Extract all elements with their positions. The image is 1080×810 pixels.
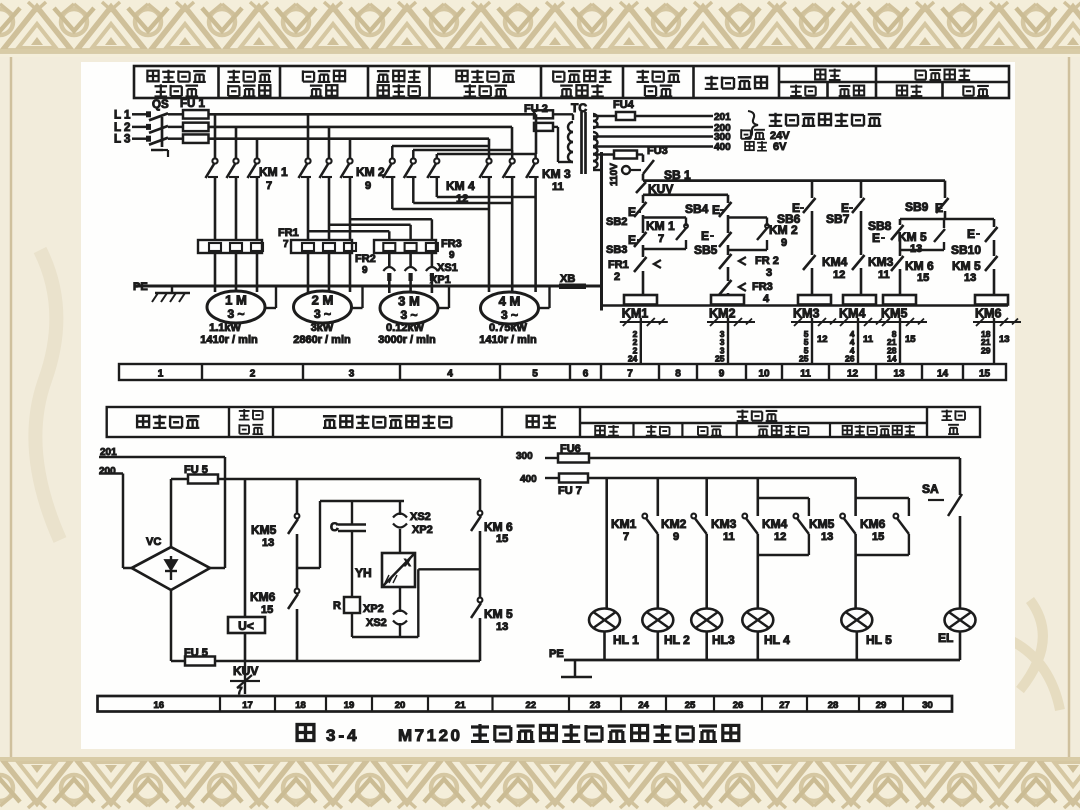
svg-text:KM 5: KM 5 — [898, 230, 927, 244]
svg-text:3 ~: 3 ~ — [400, 308, 417, 322]
svg-text:11: 11 — [863, 334, 874, 345]
svg-text:15: 15 — [917, 272, 929, 284]
svg-text:KM 1: KM 1 — [646, 219, 675, 233]
svg-text:KM5: KM5 — [809, 517, 835, 531]
svg-text:9: 9 — [365, 180, 371, 192]
svg-text:13: 13 — [893, 369, 905, 380]
svg-text:25: 25 — [685, 700, 696, 711]
svg-text:14: 14 — [887, 354, 897, 364]
svg-text:KM4: KM4 — [822, 255, 848, 269]
svg-text:1410r / min: 1410r / min — [200, 334, 258, 346]
svg-text:KM5: KM5 — [881, 307, 907, 321]
svg-text:3 M: 3 M — [398, 294, 420, 309]
svg-text:FU 7: FU 7 — [558, 485, 582, 497]
svg-text:26: 26 — [733, 700, 744, 711]
svg-text:EL: EL — [938, 631, 953, 645]
svg-text:7: 7 — [623, 531, 629, 543]
svg-text:KM1: KM1 — [622, 307, 648, 321]
svg-text:SB4: SB4 — [685, 202, 709, 216]
svg-text:3-4: 3-4 — [326, 726, 360, 745]
svg-text:2: 2 — [614, 271, 620, 283]
svg-text:L 3: L 3 — [114, 134, 130, 146]
svg-text:X: X — [404, 558, 411, 569]
svg-text:110V: 110V — [609, 163, 620, 186]
svg-text:25: 25 — [799, 354, 809, 364]
svg-text:KUV: KUV — [233, 664, 258, 678]
svg-text:12: 12 — [774, 531, 786, 543]
svg-text:KM 6: KM 6 — [484, 520, 513, 534]
svg-text:400: 400 — [520, 474, 537, 485]
svg-text:14: 14 — [937, 369, 949, 380]
svg-text:L 1: L 1 — [114, 109, 131, 121]
svg-text:9: 9 — [719, 369, 725, 380]
svg-text:KM2: KM2 — [709, 307, 735, 321]
svg-text:SB2: SB2 — [606, 216, 627, 228]
svg-text:1.1kW: 1.1kW — [209, 322, 241, 334]
svg-text:KM4: KM4 — [839, 307, 865, 321]
svg-text:3: 3 — [349, 369, 355, 380]
svg-text:FR 2: FR 2 — [755, 255, 779, 267]
svg-text:7: 7 — [627, 369, 633, 380]
svg-text:XS2: XS2 — [410, 511, 431, 523]
svg-text:E: E — [701, 229, 709, 243]
svg-text:E: E — [712, 203, 720, 217]
svg-text:3: 3 — [766, 267, 772, 279]
svg-text:U<: U< — [238, 619, 254, 633]
svg-text:24: 24 — [628, 354, 638, 364]
svg-text:SB9: SB9 — [905, 200, 929, 214]
svg-text:2 M: 2 M — [312, 293, 334, 308]
svg-text:11: 11 — [878, 269, 890, 281]
svg-text:E: E — [967, 227, 975, 241]
svg-text:7: 7 — [266, 180, 272, 192]
svg-text:11: 11 — [800, 369, 811, 380]
svg-text:30: 30 — [922, 700, 933, 711]
svg-text:VC: VC — [146, 536, 161, 548]
svg-text:16: 16 — [153, 700, 164, 711]
svg-text:XS1: XS1 — [437, 262, 458, 274]
svg-text:KM 5: KM 5 — [484, 607, 513, 621]
svg-text:21: 21 — [455, 700, 466, 711]
svg-text:1410r / min: 1410r / min — [479, 334, 537, 346]
svg-text:XB: XB — [560, 273, 575, 285]
svg-text:KM 5: KM 5 — [952, 259, 981, 273]
svg-text:YH: YH — [355, 566, 372, 580]
svg-text:27: 27 — [779, 700, 790, 711]
svg-text:19: 19 — [344, 700, 355, 711]
svg-text:17: 17 — [242, 700, 253, 711]
svg-text:0.12kW: 0.12kW — [386, 322, 425, 334]
svg-text:9: 9 — [362, 265, 368, 276]
svg-text:15: 15 — [979, 369, 991, 380]
svg-text:SB10: SB10 — [951, 243, 981, 257]
svg-text:12: 12 — [847, 369, 859, 380]
svg-text:22: 22 — [525, 700, 536, 711]
svg-text:M7120: M7120 — [398, 726, 462, 745]
svg-text:11: 11 — [552, 181, 564, 193]
svg-text:13: 13 — [964, 272, 976, 284]
svg-text:12: 12 — [833, 269, 845, 281]
svg-text:23: 23 — [590, 700, 601, 711]
svg-text:2: 2 — [250, 369, 256, 380]
svg-text:R: R — [333, 600, 341, 612]
svg-text:SB3: SB3 — [606, 244, 627, 256]
svg-text:4: 4 — [763, 293, 770, 305]
svg-text:KM3: KM3 — [868, 255, 894, 269]
svg-text:SB7: SB7 — [826, 212, 850, 226]
svg-text:XP2: XP2 — [363, 603, 384, 615]
svg-text:13: 13 — [999, 334, 1010, 345]
svg-text:FR2: FR2 — [355, 253, 376, 265]
svg-text:L 2: L 2 — [114, 122, 130, 134]
svg-text:KM 1: KM 1 — [259, 165, 288, 179]
svg-text:XP1: XP1 — [430, 274, 451, 286]
svg-text:HL 5: HL 5 — [866, 633, 892, 647]
svg-text:HL 4: HL 4 — [764, 633, 790, 647]
svg-text:KM5: KM5 — [251, 523, 277, 537]
svg-text:9: 9 — [449, 250, 455, 261]
svg-text:5: 5 — [532, 369, 538, 380]
svg-text:29: 29 — [981, 345, 991, 355]
svg-text:FR3: FR3 — [441, 238, 462, 250]
svg-text:15: 15 — [905, 334, 916, 345]
svg-text:3 ~: 3 ~ — [501, 308, 518, 322]
svg-text:XP2: XP2 — [412, 524, 433, 536]
svg-text:4 M: 4 M — [499, 294, 521, 309]
svg-text:20: 20 — [395, 700, 406, 711]
svg-text:10: 10 — [758, 369, 770, 380]
svg-text:KM6: KM6 — [860, 517, 886, 531]
svg-text:C: C — [330, 520, 339, 534]
svg-text:6: 6 — [583, 369, 589, 380]
svg-text:KM3: KM3 — [711, 517, 737, 531]
svg-text:FU 2: FU 2 — [524, 103, 548, 115]
svg-text:9: 9 — [673, 531, 679, 543]
svg-text:FR1: FR1 — [278, 227, 299, 239]
svg-text:FU3: FU3 — [647, 145, 668, 157]
svg-text:12: 12 — [817, 334, 828, 345]
svg-text:9: 9 — [781, 237, 787, 249]
svg-text:2860r / min: 2860r / min — [293, 334, 351, 346]
svg-text:29: 29 — [876, 700, 887, 711]
svg-text:E: E — [872, 231, 880, 245]
svg-text:13: 13 — [262, 537, 274, 549]
svg-text:18: 18 — [295, 700, 306, 711]
svg-text:13: 13 — [910, 243, 922, 255]
svg-text:200: 200 — [99, 466, 116, 477]
svg-text:KM3: KM3 — [793, 307, 819, 321]
svg-text:13: 13 — [496, 621, 508, 633]
svg-text:7: 7 — [658, 233, 664, 245]
svg-text:13: 13 — [821, 531, 833, 543]
svg-text:HL3: HL3 — [712, 633, 735, 647]
svg-text:15: 15 — [496, 533, 508, 545]
svg-text:FU 1: FU 1 — [180, 98, 206, 110]
svg-text:6V: 6V — [773, 141, 787, 153]
svg-text:15: 15 — [872, 531, 884, 543]
svg-text:KM 4: KM 4 — [446, 179, 475, 193]
svg-text:4: 4 — [447, 369, 453, 380]
svg-text:15: 15 — [261, 604, 273, 616]
svg-text:FR3: FR3 — [752, 281, 773, 293]
svg-text:KM2: KM2 — [661, 517, 687, 531]
svg-text:28: 28 — [828, 700, 839, 711]
svg-text:KM 3: KM 3 — [542, 167, 571, 181]
svg-text:26: 26 — [845, 354, 855, 364]
svg-text:FR1: FR1 — [608, 259, 629, 271]
svg-text:PE: PE — [549, 648, 564, 660]
svg-text:1: 1 — [158, 369, 164, 380]
svg-text:201: 201 — [714, 112, 731, 123]
svg-text:24: 24 — [638, 700, 649, 711]
svg-text:HL 2: HL 2 — [664, 633, 690, 647]
svg-text:11: 11 — [723, 531, 735, 543]
svg-text:0.75kW: 0.75kW — [489, 322, 528, 334]
svg-text:7: 7 — [283, 239, 289, 250]
svg-text:KM 6: KM 6 — [905, 259, 934, 273]
svg-text:3000r / min: 3000r / min — [378, 334, 436, 346]
svg-text:3kW: 3kW — [311, 322, 334, 334]
svg-text:XS2: XS2 — [366, 617, 387, 629]
svg-text:KM6: KM6 — [250, 590, 276, 604]
svg-text:KM6: KM6 — [975, 307, 1001, 321]
svg-text:QS: QS — [152, 99, 169, 111]
svg-text:KM1: KM1 — [611, 517, 637, 531]
svg-text:8: 8 — [675, 369, 681, 380]
svg-text:FU4: FU4 — [613, 99, 635, 111]
svg-text:HL 1: HL 1 — [613, 633, 639, 647]
svg-text:3 ~: 3 ~ — [227, 307, 244, 321]
svg-text:SB6: SB6 — [777, 212, 801, 226]
svg-text:300: 300 — [516, 451, 533, 462]
svg-text:1 M: 1 M — [225, 293, 247, 308]
svg-text:3 ~: 3 ~ — [314, 307, 331, 321]
svg-text:KM4: KM4 — [762, 517, 788, 531]
svg-text:400: 400 — [714, 142, 731, 153]
svg-text:25: 25 — [715, 354, 725, 364]
svg-text:KM 2: KM 2 — [356, 165, 385, 179]
svg-text:SB5: SB5 — [694, 243, 718, 257]
svg-text:SA: SA — [922, 482, 939, 496]
